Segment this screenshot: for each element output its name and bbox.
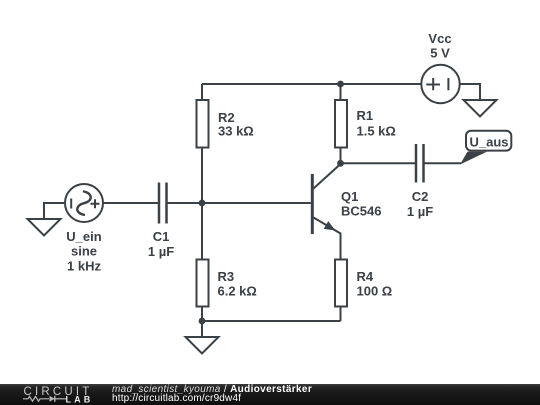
- CircuitLab logo: [0, 384, 110, 405]
- svg-text:U_ein: U_ein: [66, 229, 101, 244]
- wire R3 bottom stub: [201, 307, 203, 322]
- voltage source Vcc: [421, 65, 459, 103]
- capacitor C1: [159, 183, 167, 224]
- svg-text:C2: C2: [412, 189, 429, 204]
- wire R2 top stub: [201, 84, 203, 100]
- node junction dot base: [199, 200, 206, 207]
- svg-text:5 V: 5 V: [430, 46, 450, 61]
- svg-text:6.2 kΩ: 6.2 kΩ: [218, 284, 257, 299]
- svg-text:BC546: BC546: [341, 204, 381, 219]
- wire source left to ground: [44, 203, 64, 219]
- capacitor C2: [416, 144, 424, 183]
- svg-text:Vcc: Vcc: [428, 31, 451, 46]
- wire R1 bottom to collector node: [340, 148, 342, 163]
- wire source right to C1: [104, 202, 159, 204]
- wire base horizontal C1 to Q1 base: [168, 202, 311, 204]
- node junction dot collector: [337, 160, 344, 167]
- node junction dot top rail / R1: [337, 81, 344, 88]
- wire ground stem bottom: [201, 321, 203, 337]
- resistor R2: [197, 100, 209, 148]
- resistor R1: [335, 100, 347, 148]
- voltage source U_ein (sine): [65, 184, 103, 222]
- svg-text:33 kΩ: 33 kΩ: [218, 124, 254, 139]
- svg-text:Q1: Q1: [341, 189, 358, 204]
- ground symbol at Vcc: [464, 100, 497, 117]
- svg-text:LAB: LAB: [66, 395, 94, 405]
- svg-text:100 Ω: 100 Ω: [357, 284, 393, 299]
- svg-text:R3: R3: [218, 269, 235, 284]
- wire R4 bottom stub: [340, 307, 342, 322]
- svg-text:C1: C1: [153, 229, 170, 244]
- wire bottom rail R3 to R4: [202, 320, 341, 322]
- wire collector node to C2: [341, 162, 417, 164]
- footer bar: [0, 384, 540, 405]
- node flag U_aus: [460, 131, 511, 165]
- svg-text:1 µF: 1 µF: [407, 204, 433, 219]
- resistor R3: [197, 260, 209, 307]
- wire base vertical R2 bottom to R3 top: [201, 148, 203, 259]
- node junction dot bottom ground: [199, 318, 206, 325]
- wire top rail from R2 to Vcc source: [202, 83, 423, 85]
- svg-text:U_aus: U_aus: [469, 135, 508, 150]
- svg-text:1 kHz: 1 kHz: [67, 259, 101, 274]
- wire Vcc right to ground: [459, 84, 481, 100]
- resistor R4: [335, 260, 347, 307]
- ground symbol below source: [28, 219, 61, 236]
- ground symbol bottom center: [186, 337, 219, 354]
- svg-text:R1: R1: [357, 108, 374, 123]
- svg-text:1.5 kΩ: 1.5 kΩ: [357, 124, 396, 139]
- wire C2 to U_aus flag: [424, 162, 461, 164]
- wire R1 top stub: [340, 84, 342, 100]
- svg-text:sine: sine: [71, 244, 97, 259]
- footer credit text: [112, 384, 532, 395]
- transistor Q1 BC546: [311, 164, 341, 259]
- svg-text:R4: R4: [357, 269, 374, 284]
- svg-text:1 µF: 1 µF: [148, 244, 174, 259]
